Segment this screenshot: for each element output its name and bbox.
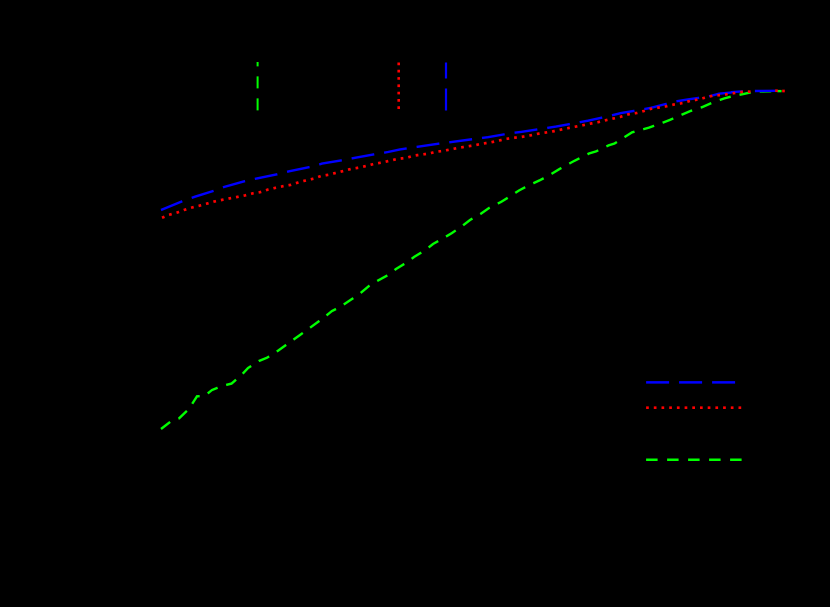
curve blue dash patch before gap (731, 90, 743, 93)
curve green final dash (777, 90, 781, 92)
vertical marker line green (dashed) (257, 62, 259, 113)
legend sample red (dotted) (646, 406, 743, 409)
curve green (dashed) (161, 91, 772, 429)
vertical marker line blue (long dash) (445, 63, 447, 113)
curve red dot at blue end (775, 89, 778, 92)
curve red (dotted) (162, 92, 752, 218)
legend sample blue (long dash) (646, 381, 736, 384)
legend sample green (dashed) (646, 459, 744, 462)
curve red final dot (782, 90, 785, 93)
vertical marker line red (dotted) (397, 63, 400, 113)
curve blue (long-dash) (161, 91, 743, 210)
curve blue final flat dash (755, 90, 777, 93)
